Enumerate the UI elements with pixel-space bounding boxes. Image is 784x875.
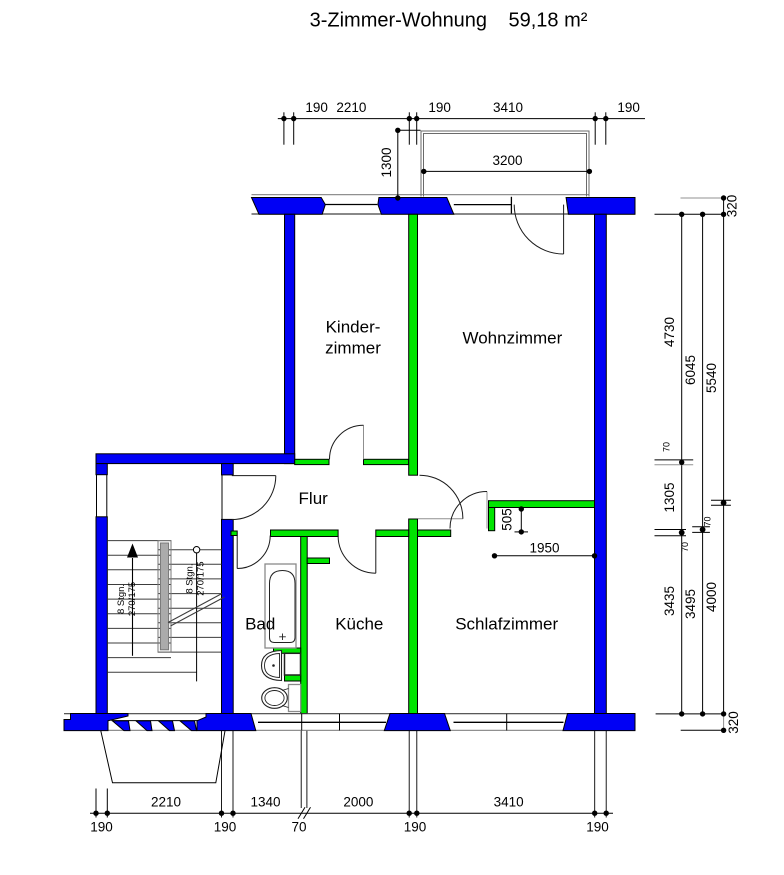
1950 dimension (Schlafzimmer width) [495, 555, 595, 557]
up arrow line (left flight) [132, 558, 134, 656]
bottom window mullion at Bad/Kueche wall [301, 714, 303, 731]
Kueche door swing arc [338, 536, 376, 574]
svg-text:70: 70 [291, 820, 306, 835]
top facade outer gray line [252, 194, 590, 196]
washbasin tap dot [272, 664, 275, 667]
stair stringer inner box [160, 543, 168, 650]
toilet bowl outer [262, 688, 288, 709]
70 slash marks on bottom chain [298, 807, 305, 819]
toilet bowl-tank connector [282, 689, 289, 708]
svg-text:zimmer: zimmer [325, 339, 381, 358]
top chain dots [281, 116, 608, 121]
svg-text:190: 190 [90, 820, 113, 835]
svg-text:190: 190 [586, 820, 609, 835]
Flur south wall stub at stair wall (green) [231, 531, 237, 536]
Flur south wall between Bad and Kueche doors (green) [271, 530, 339, 537]
Schlafzimmer north wall (green) [489, 501, 595, 508]
svg-text:190: 190 [617, 100, 640, 115]
balcony door left jamb [510, 197, 512, 214]
bottom chain labels below line [90, 820, 609, 835]
Kinderzimmer west wall [285, 214, 295, 463]
top dimension chain line [278, 118, 645, 120]
washbasin inner [265, 654, 280, 678]
svg-text:8 Stgn.270/175: 8 Stgn.270/175 [185, 561, 207, 595]
bottom extension lines from walls [95, 789, 97, 818]
bottom wall mass M2 (under stair wall) [197, 714, 256, 731]
svg-text:320: 320 [725, 195, 740, 218]
Schlafzimmer door leaf [486, 492, 488, 529]
svg-text:Flur: Flur [299, 489, 329, 508]
svg-text:Küche: Küche [335, 615, 383, 634]
right bottom tick (inner wall face) [656, 713, 726, 715]
Bad door swing arc [237, 536, 270, 569]
Schlafzimmer north wall step stub (green) [489, 508, 495, 531]
annex top wall [96, 454, 295, 464]
mark M70-3 on line2 [692, 526, 710, 528]
svg-text:Bad: Bad [245, 615, 275, 634]
bathtub inner tub [270, 571, 296, 643]
right dimension dots [679, 195, 727, 733]
svg-text:1950: 1950 [529, 541, 559, 556]
svg-text:3410: 3410 [494, 795, 524, 810]
Schlafzimmer door swing arc [450, 492, 487, 529]
stair/Bad wall lower segment [222, 519, 234, 713]
1300 dimension (balcony depth) [397, 130, 399, 198]
svg-text:3435: 3435 [662, 586, 677, 616]
right top tick (inner wall face) [655, 213, 727, 215]
svg-text:4730: 4730 [662, 317, 677, 347]
svg-text:2210: 2210 [151, 795, 181, 810]
svg-text:1305: 1305 [662, 482, 677, 512]
balcony door leaf [563, 205, 565, 254]
washbasin outer [262, 651, 282, 681]
svg-text:3-Zimmer-Wohnung: 3-Zimmer-Wohnung [310, 10, 487, 32]
stair/Bad wall upper segment [222, 464, 234, 475]
mark M70-2 on line1 (Flur south wall) [655, 529, 687, 531]
svg-text:Wohnzimmer: Wohnzimmer [462, 328, 562, 347]
svg-text:5540: 5540 [704, 363, 719, 393]
wall block B3 (top wall, right corner) [566, 198, 635, 215]
svg-text:3495: 3495 [683, 589, 698, 619]
apartment entrance door leaf [232, 475, 276, 477]
bottom window mullion in Schlafzimmer window [506, 714, 508, 731]
flight cut line (double diagonal) [168, 594, 222, 623]
toilet bowl inner [265, 691, 284, 706]
right dimension vertical line 2 [702, 214, 704, 714]
svg-text:2210: 2210 [336, 100, 366, 115]
stair treads right flight [158, 550, 222, 652]
Wohnzimmer door leaf [418, 518, 463, 520]
svg-text:6045: 6045 [683, 355, 698, 385]
svg-text:59,18 m²: 59,18 m² [509, 10, 588, 32]
bottom wall mass M3 (under central wall) [384, 714, 450, 731]
svg-text:190: 190 [428, 100, 451, 115]
up arrow head [127, 544, 138, 558]
down flight start circle [193, 547, 199, 553]
svg-text:Schlafzimmer: Schlafzimmer [455, 615, 558, 634]
svg-text:190: 190 [305, 100, 328, 115]
svg-text:3410: 3410 [493, 100, 523, 115]
right dimension labels [662, 195, 742, 734]
3200 dimension (balcony width) [424, 170, 590, 172]
svg-text:505: 505 [500, 508, 515, 531]
top facade inner edge line [252, 213, 636, 215]
top chain labels [305, 100, 640, 115]
right dimension vertical line 1 [681, 214, 683, 714]
svg-text:2000: 2000 [343, 795, 373, 810]
bottom window frame line (Bad/Kueche) [258, 721, 386, 723]
Kinderzimmer door leaf [363, 425, 365, 459]
svg-text:320: 320 [726, 711, 741, 734]
Bad/Kueche divider stub into Kueche (green) [307, 558, 329, 564]
green ledge below washbasin duct [285, 675, 301, 681]
entrance porch trapezoid [101, 731, 225, 783]
stair stringer outer box [158, 541, 171, 653]
balcony inner outline [424, 134, 587, 197]
top chain extension ticks [283, 112, 285, 144]
bathtub outer rect [265, 564, 296, 648]
right dimension vertical line 3 [723, 198, 725, 714]
svg-text:3200: 3200 [492, 153, 522, 168]
stair treads left flight [107, 541, 171, 658]
Bad door leaf [236, 536, 238, 569]
bottom window mullion in Kueche window [339, 714, 341, 731]
Kinderzimmer door swing arc [330, 425, 364, 459]
Wohnzimmer door swing arc [420, 475, 463, 519]
entrance tooth 2 [136, 721, 152, 731]
apartment entrance door swing arc [232, 476, 276, 520]
svg-text:70: 70 [680, 542, 690, 552]
wall block B2 (top wall, middle) [378, 198, 454, 215]
balcony door swing arc [514, 205, 563, 254]
window W1 frame line (Kinderzimmer north window) [325, 204, 377, 206]
annex left wall window reveal lines [96, 475, 98, 517]
balcony outer outline [421, 131, 589, 197]
bathtub drain cross [279, 634, 286, 641]
mark M70-4 on line3 (Schlafzimmer north wall) [711, 499, 731, 501]
bottom facade top edge line [64, 713, 635, 715]
duct box next to washbasin [285, 653, 301, 675]
svg-text:Kinder-: Kinder- [326, 318, 381, 337]
right bottom tick (outer wall face) [681, 729, 726, 731]
bottom facade bottom edge line [64, 729, 635, 731]
right top gray tick (outer wall face) [681, 197, 724, 199]
svg-text:190: 190 [214, 820, 237, 835]
right bottom gray connector [723, 714, 725, 730]
bottom dimension chain line [90, 812, 613, 814]
Kueche door leaf [375, 536, 377, 574]
Flur north wall, east segment (green) [364, 459, 409, 464]
bottom wall mass M1 (left corner) [64, 714, 128, 731]
right exterior wall [595, 214, 607, 713]
505 dimension (Schlafzimmer niche) [520, 508, 522, 533]
bottom window frame line (Schlafzimmer) [454, 721, 564, 723]
stair landing edge line [107, 671, 196, 673]
Bad/Kueche divider wall (green) [301, 537, 308, 714]
svg-text:8 Stgn.270/175: 8 Stgn.270/175 [116, 582, 138, 616]
annex left wall upper segment [96, 464, 107, 475]
svg-text:70: 70 [703, 516, 713, 526]
bottom wall mass M4 (right corner) [563, 714, 635, 731]
central green wall, lower segment (Kueche/Schlafzimmer) [409, 519, 418, 714]
svg-text:1340: 1340 [250, 795, 280, 810]
central green wall, upper segment (Kinderzimmer/Wohnzimmer) [409, 214, 418, 475]
down flight line [196, 553, 198, 682]
mark M70-1 on line1 (Flur north wall) [655, 459, 694, 461]
svg-text:1300: 1300 [379, 147, 394, 177]
svg-text:4000: 4000 [704, 582, 719, 612]
annex left wall lower segment [96, 517, 107, 714]
green ledge above washbasin duct [274, 648, 301, 653]
bottom chain dots [93, 811, 609, 816]
entrance sill line [112, 720, 200, 722]
window W2 frame line (Wohnzimmer north window, left of balcony door) [454, 204, 512, 206]
entrance tooth 4 [180, 721, 197, 731]
wall block B1 (top wall, left) [252, 198, 326, 215]
stair/Bad wall face line across entrance door gap [221, 475, 223, 520]
svg-text:70: 70 [662, 442, 672, 452]
entrance tooth 3 [159, 721, 175, 731]
entrance tooth 1 [113, 721, 131, 731]
svg-text:190: 190 [404, 820, 427, 835]
Flur south wall east of central wall (green) [418, 530, 451, 537]
bottom chain labels above line [151, 795, 524, 810]
Flur north wall, west segment (green) [295, 459, 329, 464]
toilet tank [289, 685, 301, 712]
Flur south wall between Kueche door and central wall (green) [376, 530, 409, 537]
